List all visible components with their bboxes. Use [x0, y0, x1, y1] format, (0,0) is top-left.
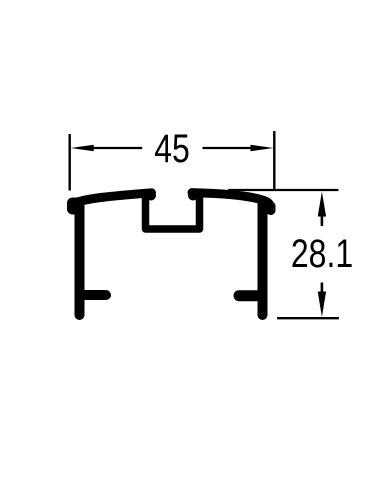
profile right foot: [239, 290, 258, 301]
45 dimension line left segment: [88, 147, 142, 149]
45 dimension right arrow: [251, 145, 274, 152]
profile top wall left arc: [73, 193, 152, 204]
profile left foot: [85, 290, 106, 300]
profile right wall: [258, 203, 268, 315]
svg-text:45: 45: [154, 126, 190, 171]
profile screw-channel left lip: [146, 191, 156, 201]
profile right bulb (top-right lip): [266, 202, 276, 216]
28.1 dimension upper stem: [321, 216, 324, 226]
profile left wall: [75, 203, 85, 315]
28.1 dimension bottom reference line: [277, 317, 339, 319]
45 dimension line right segment: [203, 147, 257, 149]
extension line right of 45 dimension: [273, 131, 275, 190]
profile screw channel (U notch): [146, 195, 200, 229]
28.1 dimension lower arrow: [318, 292, 326, 318]
45 dimension left arrow: [71, 145, 94, 152]
extension line left of 45 dimension: [68, 134, 70, 191]
28.1 dimension lower stem: [321, 283, 324, 293]
profile left bulb (top-left lip): [67, 198, 81, 215]
svg-text:28.1: 28.1: [291, 231, 353, 276]
profile top wall right arc: [192, 193, 271, 207]
28.1 dimension upper arrow: [318, 192, 326, 217]
profile screw-channel right lip: [188, 191, 198, 201]
28.1 dimension top reference line: [228, 189, 339, 191]
